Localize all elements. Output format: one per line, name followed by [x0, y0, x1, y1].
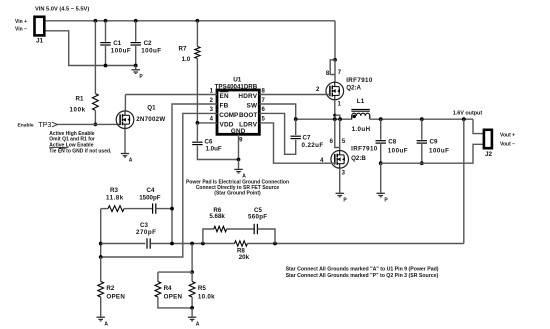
wire C6 top	[196, 123, 198, 141]
capacitor C6	[192, 141, 202, 143]
wire R4R5 top vertical	[191, 244, 193, 273]
svg-text:SW: SW	[246, 103, 257, 110]
ground P Q2B	[336, 192, 344, 194]
svg-text:100uF: 100uF	[141, 48, 161, 55]
wire output rail drop	[473, 119, 484, 133]
svg-text:100k: 100k	[70, 107, 86, 114]
node SW pin5 tap	[338, 117, 342, 121]
node rail R7 tap	[196, 19, 200, 23]
svg-text:11.8k: 11.8k	[106, 194, 124, 201]
resistor R2	[98, 282, 104, 298]
svg-text:0.22uF: 0.22uF	[302, 142, 324, 149]
svg-text:R3: R3	[110, 187, 118, 194]
svg-text:C3: C3	[140, 222, 148, 229]
svg-text:TP3: TP3	[38, 120, 51, 129]
wire R6 to C5	[227, 228, 255, 230]
svg-text:L1: L1	[357, 98, 365, 105]
underline Active Low	[49, 147, 68, 149]
wire HDRV to gate	[259, 94, 330, 96]
wire SW rail	[296, 118, 352, 120]
wire R1 top	[94, 21, 96, 94]
svg-text:Vin +: Vin +	[15, 19, 27, 25]
svg-text:100uF: 100uF	[388, 148, 408, 155]
svg-text:10.0k: 10.0k	[198, 294, 215, 301]
wire Q2B source	[339, 168, 341, 193]
resistor R4	[155, 282, 161, 298]
wire R5 bottom	[191, 297, 193, 308]
wire pin8 stub	[330, 60, 335, 75]
wire Q2A source	[334, 100, 336, 115]
svg-text:Star Connect All Grounds marke: Star Connect All Grounds marked "P" to Q…	[286, 273, 439, 279]
wire R7 bottom	[196, 59, 198, 123]
node Q2A drain pins	[333, 58, 337, 62]
wire VDD pin	[197, 122, 217, 124]
wire C9 bottom	[421, 144, 423, 163]
node FB vertical junction	[170, 242, 174, 246]
node C8 top	[379, 117, 383, 121]
node R5 bottom junction	[190, 306, 194, 310]
resistor R7	[195, 47, 200, 59]
capacitor C9	[417, 140, 427, 142]
svg-text:1.0uH: 1.0uH	[352, 126, 371, 133]
wire C2 bottom	[135, 46, 137, 66]
wire C7 top	[295, 119, 297, 135]
svg-text:100uF: 100uF	[111, 48, 131, 55]
svg-text:Vin −: Vin −	[15, 27, 27, 33]
transistor Q1	[116, 111, 134, 129]
svg-text:20k: 20k	[239, 254, 250, 261]
svg-text:Tie EN to GND if not used.: Tie EN to GND if not used.	[49, 148, 112, 154]
node FB branch junction	[170, 207, 174, 211]
wire R6 branch left	[203, 229, 214, 244]
node rail C1 tap	[104, 19, 108, 23]
svg-text:R5: R5	[198, 285, 206, 292]
wire R4 bottom	[158, 297, 192, 308]
wire R3 to C4	[124, 208, 153, 210]
wire R3 C4 branch	[101, 208, 108, 210]
svg-text:C8: C8	[388, 138, 396, 145]
connector J1	[35, 17, 45, 36]
svg-text:5.68k: 5.68k	[209, 213, 225, 220]
wire pin9 ground stub	[238, 160, 240, 169]
node left COMP line	[99, 255, 103, 259]
svg-text:IRF7910: IRF7910	[351, 146, 378, 153]
wire Q2A source bend	[335, 115, 340, 119]
wire output return	[381, 144, 484, 163]
svg-text:C9: C9	[430, 138, 438, 145]
capacitor C7	[291, 135, 301, 137]
svg-text:FB: FB	[220, 103, 229, 110]
wire Q1 drain	[124, 95, 126, 111]
wire output rail	[370, 118, 473, 120]
svg-text:R7: R7	[179, 45, 187, 52]
wire C5 right	[257, 229, 275, 244]
svg-text:TPS40041DRB: TPS40041DRB	[215, 83, 258, 90]
svg-text:R4: R4	[164, 285, 172, 292]
svg-text:100uF: 100uF	[429, 148, 449, 155]
svg-text:Q2:B: Q2:B	[351, 155, 366, 162]
wire R4R5 top bracket	[158, 271, 192, 273]
node C1 bottom junction	[104, 64, 108, 68]
node SW pin6 tap	[333, 117, 337, 121]
node Q2A source bend	[333, 114, 336, 117]
wire R4 top	[157, 272, 159, 281]
overline EN note	[59, 147, 66, 149]
svg-text:Vout +: Vout +	[500, 132, 515, 138]
op-amp U1 body	[217, 90, 259, 134]
capacitor C3	[146, 238, 148, 248]
node VDD junction	[196, 121, 200, 125]
svg-text:A: A	[104, 321, 108, 327]
svg-text:Vout −: Vout −	[500, 142, 515, 148]
node rail R1 tap	[94, 19, 98, 23]
capacitor C5	[253, 224, 255, 234]
node R4R5 junction	[190, 242, 194, 246]
svg-text:R2: R2	[106, 285, 114, 292]
wire left node vertical	[100, 209, 102, 257]
wire feedback drop	[463, 119, 465, 243]
wire Q2B drain	[339, 148, 341, 151]
wire Q1 source	[124, 129, 126, 153]
svg-text:1.6V output: 1.6V output	[453, 110, 483, 116]
ground A R2	[97, 316, 105, 318]
ground P input	[132, 69, 140, 71]
transistor Q2:B	[331, 151, 349, 169]
ground A Q1	[121, 153, 129, 155]
svg-text:OPEN: OPEN	[106, 294, 125, 301]
capacitor C1	[100, 42, 110, 44]
svg-text:R1: R1	[76, 96, 84, 103]
inductor L1 coil	[352, 113, 370, 119]
transistor Q2:A	[326, 82, 344, 100]
ground A U1	[234, 168, 242, 170]
wire R5 ground stub	[191, 308, 193, 317]
node C9 top	[420, 117, 424, 121]
svg-text:EN: EN	[220, 93, 229, 100]
node R4R5 top bracket	[190, 270, 194, 274]
ground A R5	[188, 316, 196, 318]
testpoint TP3 arrow	[52, 122, 58, 127]
svg-text:J2: J2	[485, 151, 493, 158]
wire EN to Q1 drain	[125, 94, 217, 96]
svg-text:VIN 5.0V (4.5 − 5.5V): VIN 5.0V (4.5 − 5.5V)	[35, 7, 89, 13]
wire C8 top	[380, 119, 382, 140]
node C8 bottom	[379, 161, 383, 165]
node left FB line	[99, 242, 103, 246]
node R6 right junction	[273, 242, 277, 246]
wire FB line left	[101, 243, 146, 245]
wire FB pin	[172, 104, 217, 244]
svg-text:A: A	[196, 321, 200, 327]
wire FB line mid1	[150, 243, 234, 245]
resistor R8	[235, 241, 248, 246]
wire C8 ground	[380, 163, 382, 193]
wire GND pin9	[238, 134, 240, 159]
svg-text:1500pF: 1500pF	[139, 194, 161, 201]
inductor L1 phase dot	[353, 115, 356, 118]
svg-text:270pF: 270pF	[136, 229, 156, 236]
wire SW pin from chip	[259, 104, 295, 119]
wire FB line right	[247, 243, 463, 245]
wire C1 bottom	[105, 46, 107, 66]
svg-text:C7: C7	[303, 134, 311, 141]
wire C2 top	[135, 21, 137, 42]
resistor R5	[189, 282, 195, 298]
svg-text:J1: J1	[36, 38, 44, 45]
inductor L1 core	[351, 108, 369, 110]
svg-text:Q1: Q1	[147, 105, 156, 112]
svg-text:COMP: COMP	[219, 112, 238, 119]
svg-text:1.0uF: 1.0uF	[206, 146, 222, 153]
svg-text:GND: GND	[231, 128, 246, 135]
connector J2	[484, 130, 492, 148]
wire rail to Q2A	[334, 21, 336, 60]
svg-text:C2: C2	[144, 40, 152, 47]
node R1 enable junction	[94, 123, 98, 127]
node pin9 junction	[237, 158, 241, 162]
svg-text:Star Connect All Grounds marke: Star Connect All Grounds marked "A" to U…	[286, 266, 439, 272]
svg-text:C1: C1	[113, 40, 121, 47]
wire C7 bottom to BOOT	[259, 113, 295, 154]
capacitor C2	[131, 42, 141, 44]
svg-text:1.0: 1.0	[182, 56, 191, 63]
wire enable to Q1 gate	[58, 123, 121, 125]
ground P C8	[377, 192, 385, 194]
wire C2 ground stub	[135, 66, 137, 70]
wire R2 bottom	[100, 297, 102, 317]
node rail C2 tap	[134, 19, 138, 23]
wire R7 top	[196, 21, 198, 47]
wire R1 bottom	[94, 110, 96, 124]
node FB tap	[462, 117, 466, 121]
svg-text:Enable: Enable	[18, 123, 34, 129]
svg-text:IRF7910: IRF7910	[346, 77, 373, 84]
wire R2 top	[100, 257, 102, 282]
overline EN pin	[220, 91, 229, 93]
wire LDRV to gate	[259, 123, 335, 163]
svg-text:(Star Ground Point): (Star Ground Point)	[214, 190, 261, 196]
svg-text:Q2:A: Q2:A	[346, 85, 361, 92]
wire Vin- return	[46, 31, 136, 66]
wire Vin+ top rail	[46, 20, 336, 22]
wire C9 top	[421, 119, 423, 140]
wire COMP pin	[101, 113, 217, 257]
node R6 left junction	[201, 242, 205, 246]
resistor R3	[108, 206, 124, 212]
wire C1 top	[105, 21, 107, 42]
capacitor C8	[376, 140, 386, 142]
svg-text:560pF: 560pF	[248, 213, 267, 220]
svg-text:2N7002W: 2N7002W	[136, 116, 165, 123]
svg-text:C6: C6	[205, 139, 213, 146]
wire Q2B drain stubs	[335, 119, 340, 147]
svg-text:C4: C4	[147, 187, 155, 194]
svg-text:A: A	[129, 158, 133, 164]
svg-text:HDRV: HDRV	[238, 93, 257, 100]
wire C4 right	[156, 208, 172, 210]
svg-text:OPEN: OPEN	[164, 294, 183, 301]
node C9 bottom	[420, 161, 424, 165]
node C2 bottom junction	[134, 64, 138, 68]
resistor R6	[214, 226, 227, 231]
wire C6 bottom	[197, 146, 238, 160]
resistor R1	[93, 94, 99, 111]
wire R5 top	[191, 272, 193, 281]
capacitor C4	[152, 203, 154, 213]
wire Q2A drain	[334, 60, 336, 82]
node SW C7 junction	[294, 117, 298, 121]
wire C8 bottom	[380, 144, 382, 163]
svg-text:BOOT: BOOT	[239, 112, 257, 119]
